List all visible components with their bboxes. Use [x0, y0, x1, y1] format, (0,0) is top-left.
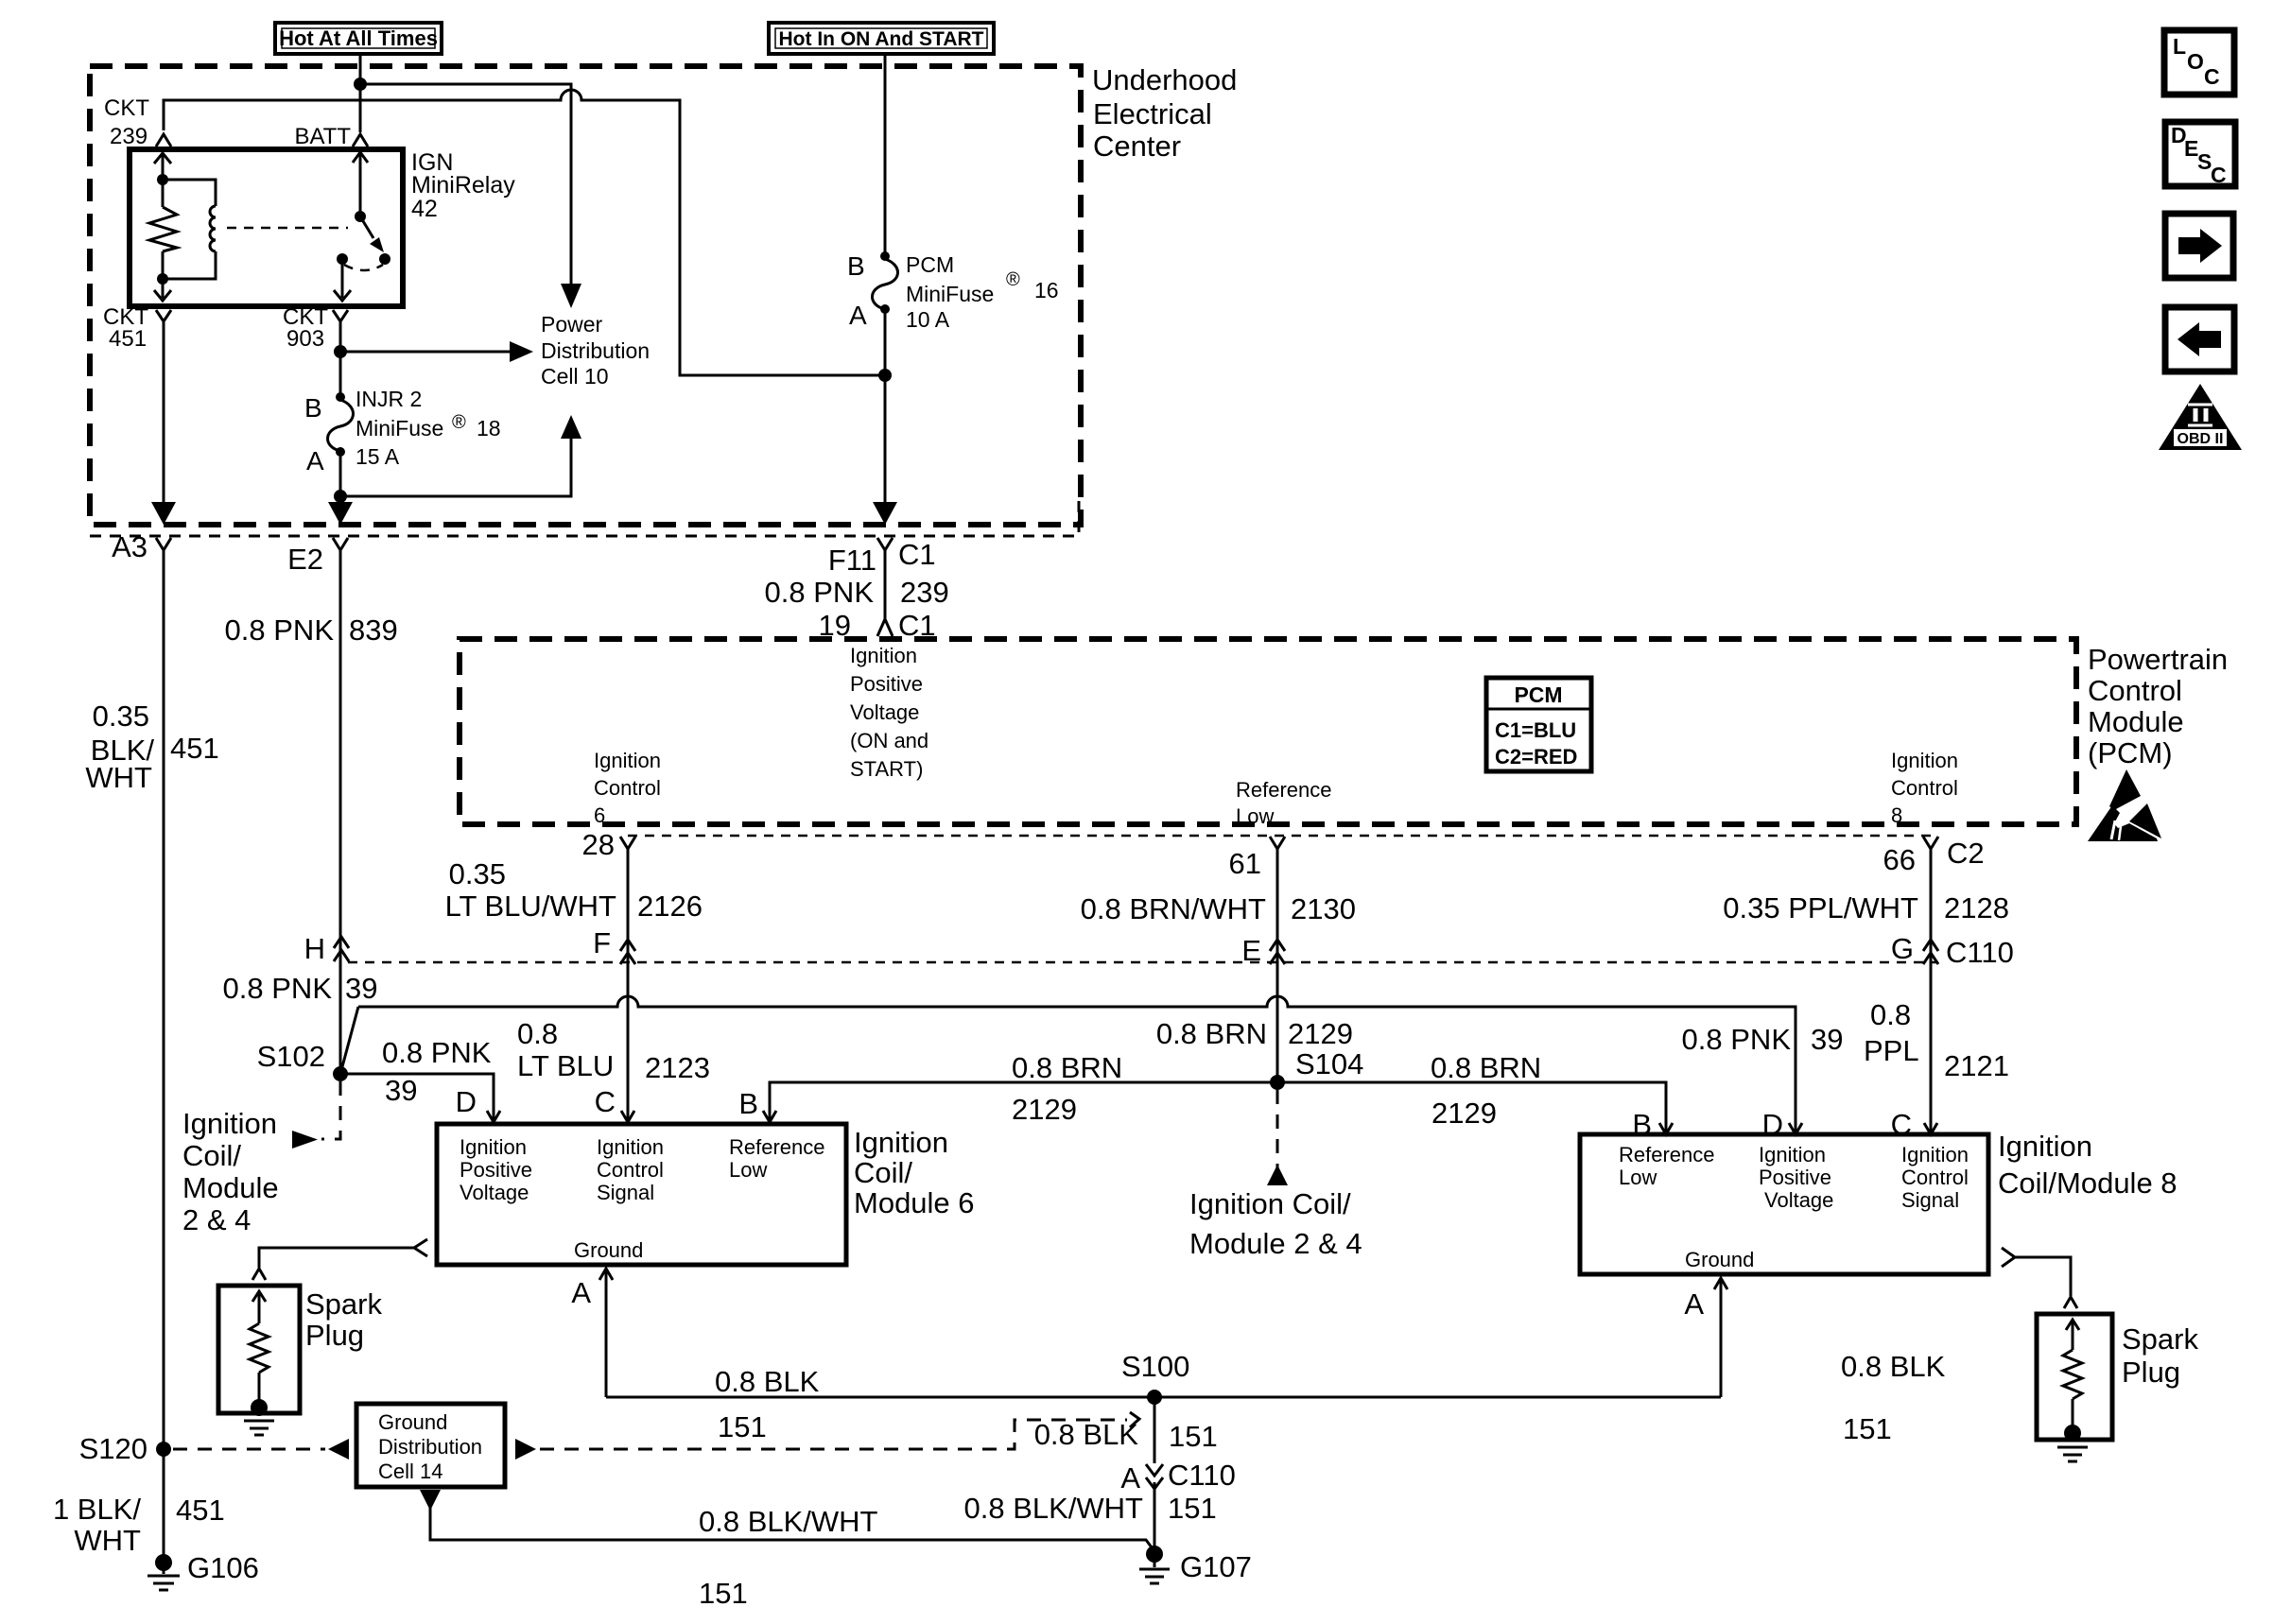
coil 8 ground pin A wire: [1720, 1280, 1723, 1397]
svg-text:WHT: WHT: [74, 1524, 141, 1557]
svg-text:151: 151: [718, 1410, 767, 1443]
svg-text:H: H: [304, 932, 325, 965]
wire CKT239 L-path to PCM fuse node (hops over x604): [164, 90, 882, 375]
svg-text:0.35: 0.35: [93, 700, 149, 733]
svg-text:Powertrain: Powertrain: [2088, 643, 2228, 676]
svg-text:Distribution: Distribution: [378, 1435, 482, 1459]
svg-text:0.8 BRN: 0.8 BRN: [1431, 1051, 1541, 1084]
svg-text:39: 39: [345, 972, 377, 1005]
node junction at 936,397: [878, 369, 892, 382]
svg-text:LT BLU/WHT: LT BLU/WHT: [445, 890, 616, 923]
svg-text:Control: Control: [597, 1158, 664, 1182]
svg-text:OBD II: OBD II: [2178, 431, 2224, 447]
svg-text:2128: 2128: [1944, 891, 2009, 924]
PCM connector legend box: [1486, 678, 1591, 771]
svg-text:0.35 PPL/WHT: 0.35 PPL/WHT: [1723, 891, 1918, 924]
wire S100 down to C110 pin A: [1154, 1397, 1156, 1463]
svg-text:Ignition: Ignition: [1901, 1143, 1969, 1166]
svg-text:A: A: [571, 1276, 591, 1309]
svg-text:MiniRelay: MiniRelay: [411, 172, 515, 199]
svg-text:Ignition: Ignition: [182, 1107, 277, 1140]
ground G106: [155, 1554, 172, 1571]
wire S102 diagonal to PNK39 run: [340, 1007, 358, 1074]
svg-text:Control: Control: [1891, 776, 1958, 800]
svg-text:Positive: Positive: [1759, 1166, 1831, 1189]
svg-text:BATT: BATT: [294, 124, 351, 149]
connector fork CKT451 below relay: [156, 310, 171, 321]
svg-text:®: ®: [452, 412, 466, 433]
fuse F18 INJR2 MiniFuse 15A: [336, 392, 345, 402]
connector fork pin 19 C1 at PCM: [877, 619, 893, 636]
wire C110 pin A down to G107: [1154, 1482, 1156, 1548]
svg-text:S104: S104: [1295, 1047, 1363, 1080]
svg-text:WHT: WHT: [85, 761, 152, 794]
svg-text:Underhood: Underhood: [1092, 63, 1237, 96]
svg-text:A: A: [849, 301, 867, 330]
relay coil loop wire: [163, 180, 216, 206]
svg-text:Signal: Signal: [597, 1181, 654, 1204]
svg-text:Plug: Plug: [305, 1319, 364, 1352]
svg-text:10 A: 10 A: [906, 307, 950, 332]
svg-text:Signal: Signal: [1901, 1188, 1959, 1212]
svg-text:Low: Low: [1236, 804, 1274, 828]
relay coil branch wires: [162, 155, 165, 207]
svg-text:0.8 BRN: 0.8 BRN: [1156, 1017, 1267, 1050]
svg-text:B: B: [738, 1087, 758, 1120]
svg-text:839: 839: [349, 613, 398, 647]
svg-text:Ignition: Ignition: [594, 749, 661, 772]
svg-text:Module 6: Module 6: [854, 1186, 975, 1219]
svg-text:Control: Control: [594, 776, 661, 800]
svg-text:C: C: [2211, 163, 2227, 187]
svg-text:G: G: [1891, 932, 1914, 965]
wire CKT451 down to box edge: [163, 321, 165, 511]
svg-text:Ignition Coil/: Ignition Coil/: [1189, 1187, 1351, 1220]
svg-text:S100: S100: [1121, 1350, 1189, 1383]
relay linkage dashed from coil to arm: [227, 227, 348, 230]
svg-text:Control: Control: [1901, 1166, 1969, 1189]
svg-text:2130: 2130: [1291, 892, 1356, 925]
relay pin arrow down right: [334, 290, 351, 301]
wire 451 from A3 down to S120 and G106: [163, 550, 165, 1562]
svg-text:28: 28: [582, 828, 615, 861]
connector fork A3: [156, 538, 171, 550]
ESD sensitive symbol: [2088, 769, 2161, 841]
connector fork CKT239 at relay top: [156, 134, 171, 147]
ground bus wire S100 run: [606, 1396, 1721, 1399]
svg-text:2123: 2123: [645, 1051, 710, 1084]
svg-text:0.8: 0.8: [517, 1017, 558, 1050]
relay switch output node: [337, 253, 348, 265]
connector fork BATT at relay top: [353, 134, 368, 147]
svg-text:LT BLU: LT BLU: [517, 1049, 614, 1082]
wire up-arrow into Power Distribution: [340, 437, 571, 496]
relay switch arm end node: [379, 253, 390, 265]
svg-text:Ignition: Ignition: [1998, 1130, 2092, 1163]
connector F at C110: [620, 940, 635, 951]
UEC connector interface thin dashed line: [90, 494, 1079, 536]
connector fork E2: [333, 538, 348, 550]
connector fork F11 C1: [877, 538, 893, 550]
svg-text:2129: 2129: [1288, 1017, 1353, 1050]
arrow exit A3: [151, 502, 176, 525]
svg-text:A: A: [1684, 1287, 1704, 1321]
svg-text:Electrical: Electrical: [1093, 97, 1212, 130]
relay node bottom of coil: [157, 273, 168, 285]
svg-text:PCM: PCM: [906, 252, 954, 277]
Ground Distribution Cell 14 box: [356, 1404, 505, 1487]
svg-text:Hot In ON And START: Hot In ON And START: [779, 28, 984, 50]
svg-text:Ignition: Ignition: [1759, 1143, 1826, 1166]
svg-text:CKT: CKT: [104, 95, 149, 121]
splice S102: [333, 1066, 348, 1081]
svg-text:Coil/: Coil/: [854, 1156, 912, 1189]
ground G107: [1146, 1546, 1163, 1563]
relay pin arrow down left: [154, 290, 171, 301]
relay pin arrow up left: [154, 153, 171, 164]
svg-text:Ignition: Ignition: [1891, 749, 1958, 772]
splice S120: [156, 1442, 171, 1457]
ignition coil/module 6 box: [437, 1124, 846, 1265]
svg-text:2129: 2129: [1431, 1097, 1497, 1130]
svg-text:Coil/: Coil/: [182, 1139, 241, 1172]
svg-text:Positive: Positive: [850, 672, 923, 696]
svg-text:Ignition: Ignition: [850, 644, 917, 667]
arrow exit F11: [873, 502, 897, 525]
svg-text:16: 16: [1034, 278, 1059, 302]
svg-text:151: 151: [699, 1577, 748, 1610]
coil 8 right connector to spark plug 2: [2002, 1248, 2015, 1267]
svg-text:F: F: [593, 926, 611, 959]
svg-text:0.8 BRN/WHT: 0.8 BRN/WHT: [1081, 892, 1266, 925]
connector E at C110: [1270, 940, 1285, 951]
dashed stub from S102 to Ignition Coil/Module 2 & 4: [321, 1081, 340, 1139]
svg-text:451: 451: [176, 1494, 225, 1527]
svg-text:903: 903: [286, 326, 324, 352]
svg-text:Reference: Reference: [1236, 778, 1332, 802]
svg-text:F11: F11: [828, 544, 876, 577]
svg-text:PPL: PPL: [1864, 1034, 1919, 1067]
spark plug 2 box: [2037, 1314, 2112, 1440]
PCM dashed box: [460, 639, 2076, 824]
dashed wire Ground Distribution to S100 branch: [515, 1439, 536, 1460]
svg-text:451: 451: [170, 732, 219, 765]
arrow exit E2: [328, 502, 353, 525]
svg-text:66: 66: [1883, 843, 1916, 876]
coil 6 left connector to spark plug: [414, 1239, 427, 1256]
svg-text:0.8 PNK: 0.8 PNK: [765, 576, 875, 609]
icon back arrow box: [2165, 307, 2234, 371]
svg-text:0.8 BLK/WHT: 0.8 BLK/WHT: [699, 1505, 878, 1538]
svg-text:0.8 BLK: 0.8 BLK: [1034, 1418, 1139, 1451]
svg-text:0.8 BRN: 0.8 BRN: [1012, 1051, 1122, 1084]
splice S100: [1147, 1390, 1162, 1405]
PCM harness connector thin dashed line: [628, 835, 1937, 838]
icon DESC box: [2165, 122, 2235, 187]
svg-text:Module 2 & 4: Module 2 & 4: [1189, 1227, 1362, 1260]
svg-text:0.8: 0.8: [1870, 998, 1911, 1031]
svg-text:2126: 2126: [637, 890, 703, 923]
svg-text:39: 39: [1811, 1023, 1843, 1056]
svg-text:E: E: [1241, 934, 1261, 967]
ignition coil/module 8 box: [1580, 1134, 1988, 1274]
svg-text:B: B: [304, 393, 322, 423]
svg-text:Ignition: Ignition: [597, 1135, 664, 1159]
dashed stub from S104 to Ignition Coil/Module 2 & 4: [1276, 1090, 1279, 1168]
svg-text:Low: Low: [729, 1158, 767, 1182]
svg-text:A3: A3: [112, 530, 147, 563]
svg-text:Ignition: Ignition: [460, 1135, 527, 1159]
connector G at C110: [1923, 940, 1938, 951]
resistor in relay: [149, 207, 177, 251]
svg-text:0.35: 0.35: [449, 857, 506, 890]
svg-text:Distribution: Distribution: [541, 338, 650, 363]
svg-text:151: 151: [1168, 1492, 1217, 1525]
connector fork CKT903 below relay: [333, 310, 348, 321]
coil 6 ground pin A wire to S100 run: [605, 1270, 608, 1397]
wire pin 61 down to S104 (Reference Low): [1276, 849, 1279, 1082]
wire CKT903 down through fuse to box edge: [339, 321, 342, 397]
svg-text:C1=BLU: C1=BLU: [1495, 718, 1576, 742]
svg-text:Module: Module: [2088, 705, 2184, 738]
svg-text:61: 61: [1229, 847, 1261, 880]
connector fork pin 66 C2: [1923, 837, 1938, 849]
svg-text:0.8 BLK/WHT: 0.8 BLK/WHT: [964, 1492, 1144, 1525]
relay pin arrow up right: [353, 152, 368, 163]
wire pin 28 down to coil 6 pin C (LT BLU 2123): [627, 849, 630, 1119]
svg-text:C: C: [595, 1085, 616, 1118]
node junction CKT903 at 372: [334, 345, 347, 358]
relay K: IGN MiniRelay 42 box: [130, 149, 403, 306]
svg-text:O: O: [2187, 49, 2204, 74]
svg-text:START): START): [850, 757, 923, 781]
svg-text:18: 18: [477, 416, 501, 441]
svg-text:0.8 PNK: 0.8 PNK: [225, 613, 335, 647]
svg-text:Plug: Plug: [2122, 1356, 2180, 1389]
svg-text:A: A: [306, 446, 324, 475]
svg-text:Spark: Spark: [305, 1287, 382, 1321]
svg-text:D: D: [456, 1085, 477, 1118]
wire S104 right to coil 8 pin B: [1277, 1082, 1666, 1132]
wire from Hot At All Times down to BATT: [359, 54, 362, 132]
svg-text:Voltage: Voltage: [1764, 1188, 1833, 1212]
svg-text:0.8 PNK: 0.8 PNK: [382, 1036, 492, 1069]
connector fork pin 61: [1270, 837, 1285, 849]
svg-text:151: 151: [1843, 1412, 1892, 1445]
connector H at C110: [348, 961, 1937, 964]
svg-text:0.8 BLK: 0.8 BLK: [715, 1365, 820, 1398]
arrow into coil 6 pin B: [763, 1111, 776, 1122]
svg-text:Hot At All Times: Hot At All Times: [279, 26, 438, 50]
arrow into coil 6 pin D: [487, 1111, 500, 1122]
svg-text:0.8 PNK: 0.8 PNK: [223, 972, 333, 1005]
splice S104: [1270, 1075, 1285, 1090]
svg-text:Cell 14: Cell 14: [378, 1460, 442, 1483]
arrow into coil 8 pin B: [1659, 1123, 1673, 1134]
svg-text:151: 151: [1169, 1420, 1218, 1453]
svg-text:8: 8: [1891, 803, 1902, 827]
connector fork pin 28: [620, 837, 635, 849]
svg-text:G107: G107: [1180, 1550, 1252, 1583]
svg-text:239: 239: [110, 124, 147, 149]
wire Hot In ON And START down through PCM fuse: [884, 54, 887, 256]
svg-text:Module: Module: [182, 1171, 279, 1204]
svg-text:451: 451: [109, 326, 147, 352]
svg-text:239: 239: [900, 576, 949, 609]
svg-text:0.8 PNK: 0.8 PNK: [1682, 1023, 1792, 1056]
svg-text:(PCM): (PCM): [2088, 736, 2173, 769]
relay node top of coil: [157, 174, 168, 185]
svg-text:Reference: Reference: [1619, 1143, 1715, 1166]
relay output wire down: [341, 259, 344, 298]
svg-text:42: 42: [411, 196, 438, 222]
svg-text:L: L: [2173, 34, 2186, 59]
svg-text:Spark: Spark: [2122, 1322, 2198, 1356]
wire E2 down to S102: [339, 550, 342, 1074]
svg-text:Positive: Positive: [460, 1158, 532, 1182]
svg-text:Ground: Ground: [1685, 1248, 1754, 1271]
svg-text:Center: Center: [1093, 130, 1181, 163]
connector A C110 chevrons: [1146, 1464, 1163, 1476]
svg-text:C2=RED: C2=RED: [1495, 745, 1577, 769]
svg-text:C2: C2: [1947, 837, 1985, 870]
svg-text:C1: C1: [898, 538, 936, 571]
svg-text:B: B: [847, 251, 865, 281]
icon OBD II triangle: [2159, 384, 2242, 450]
wire Ground Distribution down arrow to G107: [420, 1490, 441, 1511]
inductor coil bumps: [210, 206, 216, 251]
fuse F16 PCM MiniFuse 10A: [880, 251, 890, 261]
svg-text:S102: S102: [257, 1040, 325, 1073]
svg-text:Power: Power: [541, 312, 603, 337]
node junction at 381,89: [354, 78, 367, 91]
wire pin 66 down to coil 8 pin C (PPL 2121): [1930, 849, 1933, 1132]
arrow down to Power Distribution: [561, 284, 581, 308]
relay switch arm with arrowhead: [360, 216, 373, 238]
svg-text:Control: Control: [2088, 674, 2182, 707]
relay dashed throw arc: [344, 265, 383, 270]
svg-text:E2: E2: [287, 543, 323, 576]
spark plug 1 box: [218, 1286, 300, 1413]
dashed wire S120 to Ground Distribution: [173, 1448, 325, 1451]
svg-text:Ground: Ground: [378, 1410, 447, 1434]
icon forward arrow box: [2165, 214, 2233, 278]
wire arrow to Power Distribution text: [340, 351, 511, 354]
svg-text:Ground: Ground: [574, 1238, 643, 1262]
svg-text:Voltage: Voltage: [850, 700, 919, 724]
svg-text:PCM: PCM: [1514, 682, 1562, 707]
wire S104 left to coil 6 pin B: [770, 1082, 1277, 1119]
svg-text:1 BLK/: 1 BLK/: [53, 1493, 141, 1526]
svg-text:C: C: [2204, 64, 2220, 89]
svg-text:Coil/Module 8: Coil/Module 8: [1998, 1166, 2178, 1200]
svg-text:G106: G106: [187, 1551, 259, 1584]
relay switch pivot node: [355, 211, 366, 222]
svg-text:2 & 4: 2 & 4: [182, 1203, 251, 1236]
svg-text:(ON and: (ON and: [850, 729, 928, 752]
svg-text:15 A: 15 A: [356, 444, 400, 469]
wire fuse A down to box edge: [884, 309, 887, 511]
svg-text:Reference: Reference: [729, 1135, 825, 1159]
wire 0.8 PNK 39 run to coil module 8 pin D (hops at F and E wires): [358, 996, 1796, 1132]
svg-text:0.8 BLK: 0.8 BLK: [1841, 1350, 1946, 1383]
svg-text:Ignition: Ignition: [854, 1126, 948, 1159]
arrow into coil 8 pin C: [1924, 1123, 1937, 1134]
wire S102 to coil module 6 pin D: [340, 1074, 494, 1119]
wire fuse A down to box edge: [339, 452, 342, 511]
svg-text:C110: C110: [1946, 936, 2014, 969]
svg-text:Voltage: Voltage: [460, 1181, 529, 1204]
svg-text:Cell 10: Cell 10: [541, 364, 609, 389]
node junction below fuse: [334, 490, 347, 503]
banner Hot In ON And START: [769, 23, 994, 54]
svg-text:C110: C110: [1168, 1459, 1236, 1492]
svg-text:MiniFuse: MiniFuse: [906, 282, 994, 306]
banner Hot At All Times: [275, 23, 442, 54]
Underhood Electrical Center dashed box: [90, 66, 1081, 525]
svg-text:6: 6: [594, 803, 605, 827]
relay switch common wire from BATT: [359, 152, 362, 216]
wire from junction to power distribution arrow: [360, 84, 571, 285]
svg-text:A: A: [1120, 1461, 1140, 1494]
wire F11 to PCM pin 19: [884, 550, 887, 619]
svg-text:S120: S120: [79, 1432, 147, 1465]
svg-text:INJR 2: INJR 2: [356, 387, 422, 411]
svg-text:®: ®: [1006, 269, 1020, 290]
icon LOC box: [2164, 30, 2234, 95]
svg-text:2129: 2129: [1012, 1093, 1077, 1126]
svg-text:Low: Low: [1619, 1166, 1657, 1189]
svg-text:39: 39: [385, 1074, 417, 1107]
svg-text:2121: 2121: [1944, 1049, 2009, 1082]
arrow into coil 8 pin D: [1789, 1123, 1802, 1134]
svg-text:MiniFuse: MiniFuse: [356, 416, 443, 441]
arrow into coil 6 pin C: [621, 1111, 634, 1122]
